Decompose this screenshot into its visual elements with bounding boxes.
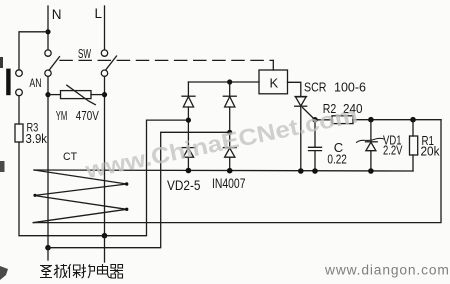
wire gate junction to R2: [315, 119, 332, 121]
thyristor SCR gate lead: [303, 108, 315, 120]
至: [40, 266, 52, 278]
diode VD3 bar: [182, 147, 195, 149]
capacitor C plates: [309, 147, 322, 150]
node dot VD1 bottom: [368, 168, 374, 174]
switch SW linkage dashed line to relay K: [60, 59, 273, 61]
diode VD2 triangle: [183, 97, 193, 107]
bridge label VD2-5: [167, 178, 201, 193]
node junction N-AN dot: [45, 29, 50, 34]
resistor R3 label: [27, 120, 39, 134]
wire negative rail (CT top terminal to R1 bottom): [34, 170, 413, 171]
wire W1 R3/L to bridge AC input 1: [19, 120, 188, 236]
svg-text:YM: YM: [56, 109, 68, 123]
diode VD4 triangle: [225, 97, 235, 107]
node dot bridge left bottom: [186, 168, 192, 174]
node dot SCR cathode on rail: [298, 168, 304, 174]
capacitor C label: [334, 140, 343, 155]
wire L stub to protected load: [104, 236, 106, 262]
varistor YM node dot on N: [45, 92, 50, 97]
diode VD2 bar: [182, 95, 195, 97]
switch SW pole L contacts: [101, 50, 107, 56]
wire bridge positive rail to relay K: [188, 81, 259, 83]
wire YM left lead: [48, 94, 61, 96]
wire L line top: [104, 6, 106, 50]
svg-text:3.9k: 3.9k: [26, 131, 48, 146]
zener VD1 value 2.2V: [383, 144, 403, 158]
wire N stub to protected load: [47, 248, 49, 260]
scan artifact left edge middle: [0, 161, 5, 172]
node L label: [95, 6, 103, 21]
capacitor C value 0.22: [327, 152, 347, 166]
svg-text:AN: AN: [29, 76, 41, 90]
switch SW pole L blade: [106, 56, 117, 70]
wire YM right lead: [91, 94, 105, 96]
器: [110, 265, 123, 279]
diode VD3 triangle: [183, 148, 193, 157]
transformer CT label: [63, 151, 77, 163]
resistor R3 value 3.9k: [26, 131, 48, 146]
diode VD4 bar: [223, 95, 236, 97]
wire N junction to AN branch: [19, 32, 48, 70]
保: [68, 264, 81, 278]
capacitor C top lead: [314, 120, 316, 148]
svg-text:L: L: [95, 6, 103, 21]
svg-text:2.2V: 2.2V: [383, 144, 403, 158]
wire N line top: [47, 6, 49, 50]
svg-text:CT: CT: [63, 151, 77, 163]
zener VD1 label: [383, 134, 402, 148]
thyristor SCR cathode bar: [295, 105, 307, 107]
svg-text:100-6: 100-6: [334, 80, 366, 94]
wire bridge right branch bottom: [229, 157, 231, 171]
电: [98, 264, 111, 278]
varistor YM label: [56, 109, 100, 123]
node dot R1 top: [410, 117, 416, 123]
wire bridge left branch top: [187, 82, 189, 96]
node dot bridge AC input 1: [186, 118, 191, 123]
node dot L to W1: [102, 233, 108, 239]
wire AN to R3: [18, 96, 20, 124]
svg-text:20k: 20k: [421, 145, 441, 159]
wire bridge right branch top: [229, 82, 231, 96]
varistor YM body: [61, 91, 92, 99]
wire L line below switch: [104, 76, 106, 235]
scan artifact left edge top: [0, 57, 3, 68]
svg-text:K: K: [270, 76, 279, 91]
wire R2 to right edge: [353, 119, 441, 121]
resistor R1 top lead: [412, 120, 414, 136]
switch SW pole N blade: [49, 57, 60, 71]
resistor R2: [332, 116, 353, 124]
node dot bridge right bottom: [227, 168, 233, 174]
switch SW label: [78, 46, 91, 61]
varistor YM diagonal stroke: [67, 85, 96, 104]
node dot bridge AC input 2: [227, 130, 232, 135]
node dot C bottom: [312, 168, 318, 174]
wire SCR cathode to rail: [300, 106, 302, 171]
svg-text:470V: 470V: [76, 109, 100, 123]
diode VD5 bar: [223, 147, 236, 149]
relay K label: [270, 76, 279, 91]
wire bridge left branch bottom: [187, 157, 189, 170]
wire bridge left branch mid: [187, 107, 189, 148]
resistor R3: [15, 124, 23, 142]
zener VD1 bottom lead: [370, 151, 372, 171]
wire CT bottom terminal to right edge riser: [33, 120, 441, 223]
zigzag vertex blobs: [125, 182, 128, 185]
svg-text:VD2-5: VD2-5: [167, 178, 201, 193]
varistor YM node dot on L: [102, 92, 107, 97]
resistor R1 label: [422, 134, 435, 148]
scan artifact left edge bottom: [0, 266, 8, 280]
svg-text:SW: SW: [78, 46, 91, 61]
pushbutton AN contacts: [16, 70, 23, 77]
switch SW pole N contacts: [45, 50, 51, 56]
diode VD5 triangle: [225, 148, 235, 157]
transformer CT secondary winding zigzag: [33, 170, 126, 223]
svg-text:0.22: 0.22: [327, 152, 347, 166]
thyristor SCR triangle: [296, 97, 307, 106]
zener VD1 triangle: [366, 142, 376, 151]
wire bridge right branch mid: [229, 107, 231, 148]
node dot VD1 top: [368, 117, 374, 123]
bridge value label IN4007: [212, 176, 246, 191]
relay K coil box: [259, 70, 288, 94]
被: [54, 264, 67, 278]
watermark www.ChinaECNet.com: [82, 101, 360, 183]
wire N line below switch: [47, 76, 49, 247]
wire K to SCR anode: [288, 82, 301, 96]
zener VD1 cathode bar: [366, 141, 378, 143]
svg-text:SCR: SCR: [304, 80, 327, 94]
wire W2 N to bridge AC input 2: [48, 132, 230, 247]
resistor R1: [410, 136, 418, 155]
node dot N to W2: [45, 245, 51, 251]
thyristor SCR anode bar: [295, 96, 307, 98]
pushbutton AN label: [29, 76, 41, 90]
resistor R1 value 20k: [421, 145, 441, 159]
label 至被保护电器 (to protected appliance) drawn strokes: [40, 264, 123, 278]
watermark www.diangon.com: [324, 263, 450, 278]
resistor R1 bottom lead: [412, 155, 414, 171]
resistor R2 label and value 240: [323, 102, 363, 116]
护: [82, 264, 95, 278]
svg-text:www.diangon.com: www.diangon.com: [324, 263, 450, 278]
svg-text:N: N: [52, 7, 62, 22]
node dot rail/right branch: [227, 79, 232, 84]
zener VD1 leader squiggle: [357, 138, 385, 142]
thyristor SCR label 100-6: [304, 80, 366, 94]
zener VD1 top lead: [370, 120, 372, 142]
svg-text:IN4007: IN4007: [212, 176, 246, 191]
pushbutton AN actuator bar: [6, 69, 10, 96]
node dot gate/R2/C junction: [312, 117, 318, 123]
capacitor C bottom lead: [314, 151, 316, 171]
node N label: [52, 7, 62, 22]
